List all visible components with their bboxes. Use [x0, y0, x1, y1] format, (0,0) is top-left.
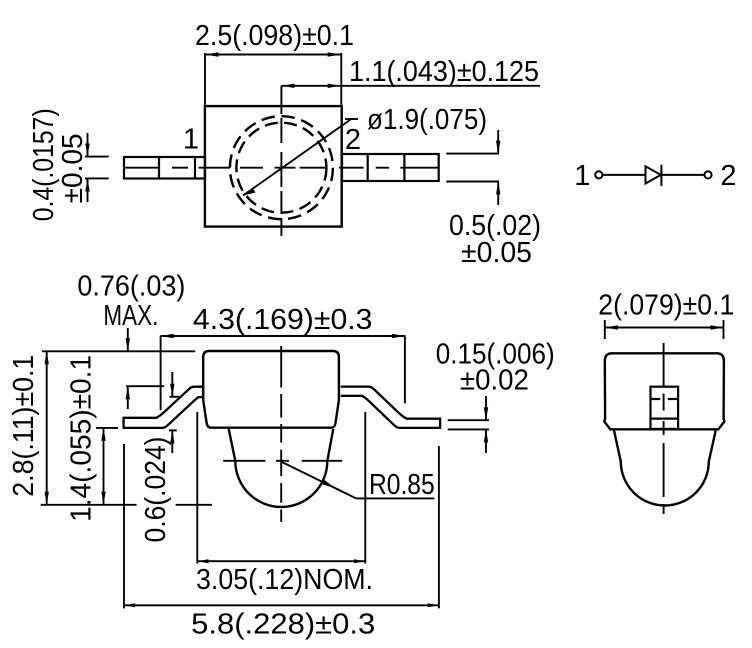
svg-text:±0.05: ±0.05 — [57, 133, 89, 203]
dimension 0.15(.006)±0.02 — [436, 339, 555, 453]
svg-text:±0.02: ±0.02 — [460, 365, 529, 397]
side view: lens dome outline — [229, 429, 334, 507]
svg-text:0.6(.024): 0.6(.024) — [140, 437, 172, 543]
circuit symbol pin 1 label — [574, 160, 590, 192]
svg-text:4.3(.169)±0.3: 4.3(.169)±0.3 — [193, 304, 373, 336]
top view: package body outline — [205, 106, 342, 227]
svg-text:1.1(.043)±0.125: 1.1(.043)±0.125 — [349, 56, 539, 88]
side view: right gull-wing lead — [341, 387, 440, 428]
dimension R0.85 leader — [282, 462, 435, 501]
svg-text:R0.85: R0.85 — [369, 469, 435, 501]
dimension 1.4(.055)±0.1 — [65, 355, 118, 522]
svg-text:±0.05: ±0.05 — [461, 237, 532, 269]
end view: vertical centerline — [663, 343, 665, 514]
circuit symbol terminal 1 circle — [595, 171, 602, 178]
svg-text:1: 1 — [183, 124, 199, 156]
svg-text:1: 1 — [574, 160, 590, 192]
top view pin label 1 — [183, 124, 199, 156]
svg-text:2(.079)±0.1: 2(.079)±0.1 — [598, 290, 734, 322]
svg-text:5.8(.228)±0.3: 5.8(.228)±0.3 — [191, 609, 375, 641]
end view: package body outline — [604, 353, 724, 429]
svg-text:2.8(.11)±0.1: 2.8(.11)±0.1 — [8, 355, 40, 497]
circuit symbol terminal 2 circle — [704, 171, 711, 178]
dimension 2.8(.11)±0.1 — [8, 351, 212, 505]
side view: dome horizontal centerline — [223, 460, 342, 462]
side view: package body outline — [203, 351, 339, 428]
top view: lens inner dashed circle — [236, 123, 326, 213]
dimension 5.8(.228)±0.3 — [124, 444, 439, 641]
top view pin label 2 — [345, 124, 361, 156]
circuit symbol anode wire — [602, 174, 645, 176]
end view: lead cross-section detail — [651, 387, 679, 429]
dimension 0.4(.0157)±0.05 (left, lead width) — [28, 108, 109, 221]
top view: right lead (pin 2) outline — [342, 154, 439, 181]
svg-text:MAX.: MAX. — [103, 300, 158, 332]
top view: horizontal centerline — [125, 167, 439, 169]
top view: vertical centerline — [280, 86, 282, 236]
svg-text:ø1.9(.075): ø1.9(.075) — [367, 104, 487, 136]
dimension 3.05(.12)NOM. — [196, 412, 373, 596]
dimension 0.76(.03) MAX. leader arrows — [77, 271, 185, 409]
dimension 0.6(.024) — [140, 372, 179, 543]
dimension 4.3(.169)±0.3 — [161, 304, 405, 410]
svg-text:1.4(.055)±0.1: 1.4(.055)±0.1 — [65, 355, 97, 522]
diode triangle — [646, 166, 661, 183]
svg-text:2: 2 — [720, 160, 736, 192]
dimension 0.5(.02)±0.05 (right, lead thickness) — [446, 130, 541, 269]
top view: left lead (pin 1) outline — [124, 157, 205, 179]
svg-text:2.5(.098)±0.1: 2.5(.098)±0.1 — [195, 20, 354, 52]
dimension 2.5(.098)±0.1 — [195, 20, 354, 105]
dimension ø1.9(.075) leader — [243, 104, 487, 196]
side view: left gull-wing lead — [124, 387, 205, 428]
side view: vertical centerline — [280, 346, 282, 522]
dimension 1.1(.043)±0.125 — [281, 56, 540, 88]
top view: lens outer dashed circle — [230, 116, 333, 219]
svg-text:2: 2 — [345, 124, 361, 156]
circuit symbol pin 2 label — [720, 160, 736, 192]
svg-text:3.05(.12)NOM.: 3.05(.12)NOM. — [196, 564, 373, 596]
end view: lens dome outline — [614, 430, 716, 506]
dimension 2(.079)±0.1 — [598, 290, 734, 340]
svg-text:0.4(.0157): 0.4(.0157) — [28, 108, 60, 221]
circuit symbol cathode wire — [661, 174, 704, 176]
diode cathode bar — [660, 165, 662, 186]
svg-text:0.76(.03): 0.76(.03) — [77, 271, 185, 303]
